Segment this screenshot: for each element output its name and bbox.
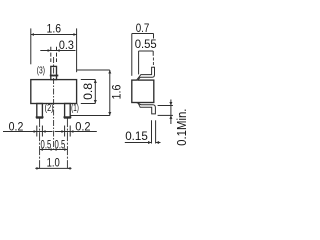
svg-text:0.3: 0.3	[59, 38, 74, 52]
svg-text:1.0: 1.0	[47, 155, 60, 169]
svg-text:0.5: 0.5	[41, 137, 52, 151]
svg-text:0.7: 0.7	[136, 21, 150, 35]
svg-text:(1): (1)	[71, 103, 79, 114]
svg-text:0.5: 0.5	[55, 137, 66, 151]
svg-text:(3): (3)	[37, 65, 45, 76]
svg-text:0.15: 0.15	[125, 129, 148, 143]
svg-text:0.2: 0.2	[9, 119, 24, 133]
svg-text:0.8: 0.8	[81, 83, 95, 100]
svg-text:0.2: 0.2	[75, 119, 90, 133]
svg-text:1.6: 1.6	[109, 84, 123, 99]
svg-text:0.55: 0.55	[135, 37, 157, 51]
svg-text:1.6: 1.6	[47, 22, 62, 36]
svg-text:0.1Min.: 0.1Min.	[174, 109, 189, 146]
svg-text:(2): (2)	[45, 103, 54, 114]
